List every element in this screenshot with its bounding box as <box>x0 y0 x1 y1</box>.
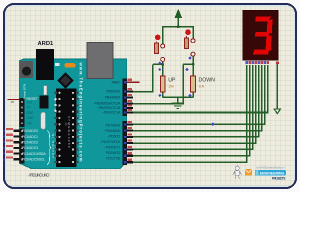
node junction left button/R1 <box>161 63 164 66</box>
svg-text:www.TheEngineeringProjects.com: www.TheEngineeringProjects.com <box>79 62 84 162</box>
header dots column <box>54 98 56 112</box>
pin PB4/MISO <box>105 94 133 100</box>
pin PC0/ADC0 <box>3 128 38 133</box>
wire button DOWN bottom to resistor R2 <box>192 53 194 77</box>
wire R1 bottom to ground rail <box>162 92 164 97</box>
wire bus vertical seg7 to display pin <box>249 65 251 156</box>
pin PC4/ADC4/SDA <box>3 151 47 156</box>
wire button UP bottom to resistor R1 <box>162 58 164 76</box>
wire bus horizontal seg6 <box>127 148 254 150</box>
display pin number marks <box>245 61 279 64</box>
svg-text:~PD6/AIN0: ~PD6/AIN0 <box>104 129 121 133</box>
SMD chip (45 deg) <box>57 72 73 88</box>
svg-text:10k: 10k <box>199 85 205 89</box>
power jack barrel <box>20 61 33 78</box>
svg-text:ARDUINO UNO: ARDUINO UNO <box>28 173 49 178</box>
pin PC1/ADC1 <box>3 134 38 139</box>
wire bus horizontal seg4 <box>127 136 260 138</box>
crystal X1 <box>41 112 46 129</box>
wire right branch from rail to button DOWN <box>192 26 194 39</box>
diode D1 <box>40 96 49 109</box>
push button DOWN button <box>185 29 195 56</box>
wire UP junction to pin PB5/SCK <box>127 91 154 93</box>
svg-text:GND: GND <box>27 111 35 115</box>
svg-text:~PD5/T1: ~PD5/T1 <box>107 134 120 138</box>
pin PC3/ADC3 <box>3 145 38 150</box>
svg-text:~PB2/SS/OC1B: ~PB2/SS/OC1B <box>97 106 121 110</box>
pin PC2/ADC2 <box>3 139 38 144</box>
pin PD1/TXD <box>106 156 133 163</box>
pin RESET (maroon) <box>8 100 20 104</box>
svg-text:PD4/T0/XCK: PD4/T0/XCK <box>101 140 121 144</box>
wire bus horizontal seg2 <box>127 123 266 125</box>
svg-text:PB5/SCK: PB5/SCK <box>106 90 121 94</box>
push button UP button <box>154 35 164 62</box>
svg-text:GND: GND <box>27 116 35 120</box>
segment b (top right) <box>267 19 273 34</box>
pin PD4/T0/XCK <box>101 140 133 145</box>
wire UP junction horizontal <box>153 63 164 65</box>
wire UP junction vertical down <box>152 64 154 91</box>
USB connector <box>87 43 113 79</box>
svg-text:VIN: VIN <box>27 122 33 126</box>
node marker R1 top <box>158 61 161 64</box>
ground symbol <box>172 97 184 108</box>
pin PB1/OC1A <box>102 109 133 115</box>
resistor R2 <box>191 76 196 92</box>
wire bus horizontal seg5 <box>127 142 257 144</box>
wire bus vertical seg4 to display pin <box>258 65 260 137</box>
pin PD7/AIN1 <box>106 121 134 128</box>
power LED (orange) <box>65 63 76 67</box>
wire bus vertical seg3 to display pin <box>261 65 263 130</box>
logo envelope <box>245 169 252 175</box>
svg-text:AREF: AREF <box>112 81 121 85</box>
wire bus vertical seg6 to display pin <box>252 65 254 149</box>
segment c (bottom right) <box>266 35 272 50</box>
pin ~PD5/T1 <box>107 133 133 138</box>
wire bus vertical seg8 to display pin <box>246 65 248 162</box>
svg-text:PC1/ADC1: PC1/ADC1 <box>22 135 38 139</box>
left power header strip <box>19 98 24 127</box>
svg-text:PC3/ADC3: PC3/ADC3 <box>22 146 38 150</box>
pin PB3/MOSI <box>93 100 133 106</box>
node junction +5V rail center <box>177 25 180 28</box>
node marker R1 bottom <box>158 94 161 97</box>
wire bus horizontal seg1 <box>127 111 269 113</box>
segment g (middle) <box>255 32 270 36</box>
pin PC5/ADC5/SCL <box>3 156 46 161</box>
node junction right button/R2 <box>192 63 195 66</box>
svg-text:Reset BTN: Reset BTN <box>22 84 26 99</box>
pin PB5/SCK <box>106 88 133 94</box>
reset capacitor <box>44 86 47 95</box>
node marker R2 area <box>185 68 188 71</box>
svg-text:PD2/INT0: PD2/INT0 <box>106 151 121 155</box>
node marker R2 top <box>188 56 191 59</box>
wire left branch from rail to button UP <box>162 26 164 45</box>
wire display common to ground terminal <box>276 62 278 109</box>
wire DOWN junction horizontal <box>183 63 193 65</box>
node marker R1 area <box>158 68 161 71</box>
svg-text:PC4/ADC4/SDA: PC4/ADC4/SDA <box>22 152 47 156</box>
svg-text:ANALOG IN: ANALOG IN <box>51 134 55 158</box>
svg-text:www.TheEngineeringProjects.com: www.TheEngineeringProjects.com <box>256 165 286 169</box>
svg-text:PC0/ADC0: PC0/ADC0 <box>22 129 38 133</box>
analog-in bracket <box>47 131 51 165</box>
svg-text:PC2/ADC2: PC2/ADC2 <box>22 141 38 145</box>
pin ~PD6/AIN0 <box>104 127 133 133</box>
segment d (bottom) <box>253 50 269 55</box>
pin ~PD3/INT1 <box>104 145 133 150</box>
right pin header strip upper <box>123 79 127 117</box>
sheet border frame <box>4 4 296 188</box>
wire bus vertical seg1 to display pin <box>267 65 269 112</box>
svg-text:PC5/ADC5/SCL: PC5/ADC5/SCL <box>22 158 46 162</box>
svg-text:PD1/TXD: PD1/TXD <box>106 156 121 160</box>
pin AREF <box>112 79 140 85</box>
node marker R2 bottom <box>188 94 191 97</box>
ATmega DIP chip <box>56 89 76 168</box>
logo ENGINEERING band <box>255 170 286 176</box>
resistor R1 <box>160 76 165 92</box>
segment a (top) <box>255 17 271 22</box>
ground terminal arrow (down) <box>274 109 280 114</box>
svg-text:RESET: RESET <box>27 97 38 101</box>
wire DOWN junction to pin PB3/MOSI <box>127 103 184 105</box>
left power header labels <box>27 100 35 125</box>
ON indicator <box>55 63 60 66</box>
svg-text:~PD3/INT1: ~PD3/INT1 <box>104 145 121 149</box>
wire bus horizontal seg7 <box>127 155 251 157</box>
svg-text:~PB3/MOSI/OC2A: ~PB3/MOSI/OC2A <box>93 102 121 106</box>
logo robot <box>233 165 242 180</box>
left analog header strip <box>19 128 24 163</box>
DIP chip pins <box>55 92 79 164</box>
svg-text:DOWN: DOWN <box>199 78 216 84</box>
svg-text:ENGINEERING: ENGINEERING <box>260 171 285 175</box>
wire DOWN junction vertical down <box>182 64 184 103</box>
wire bus horizontal seg3 <box>127 130 263 132</box>
7-segment display body <box>243 10 278 60</box>
svg-text:10k: 10k <box>168 85 174 89</box>
wire top +5V rail <box>163 26 194 28</box>
svg-text:ATMEGA328P: ATMEGA328P <box>67 116 71 148</box>
power terminal +5V arrow <box>175 10 182 28</box>
wire bus vertical seg2 to display pin <box>264 65 266 124</box>
svg-text:ARD1: ARD1 <box>38 41 55 47</box>
wire bus vertical seg5 to display pin <box>255 65 257 143</box>
right pin header strip lower <box>123 121 127 165</box>
svg-text:PB4/MISO: PB4/MISO <box>105 96 121 100</box>
svg-text:UP: UP <box>168 78 176 84</box>
svg-text:PD7/AIN1: PD7/AIN1 <box>106 123 121 127</box>
pin PB2/SS <box>97 104 133 110</box>
power jack <box>36 49 54 80</box>
pin PD2/INT0 <box>106 151 133 157</box>
node marker bus <box>211 122 215 126</box>
header hole dots <box>21 101 23 160</box>
Arduino Uno board ARD1 body <box>19 59 127 169</box>
wire R2 bottom to ground rail <box>192 92 194 97</box>
wire bus horizontal seg8 <box>127 161 248 163</box>
wire ground rail under resistors <box>163 96 193 98</box>
svg-text:~PB1/OC1A: ~PB1/OC1A <box>102 111 121 115</box>
svg-text:PROJECTS: PROJECTS <box>272 176 286 180</box>
